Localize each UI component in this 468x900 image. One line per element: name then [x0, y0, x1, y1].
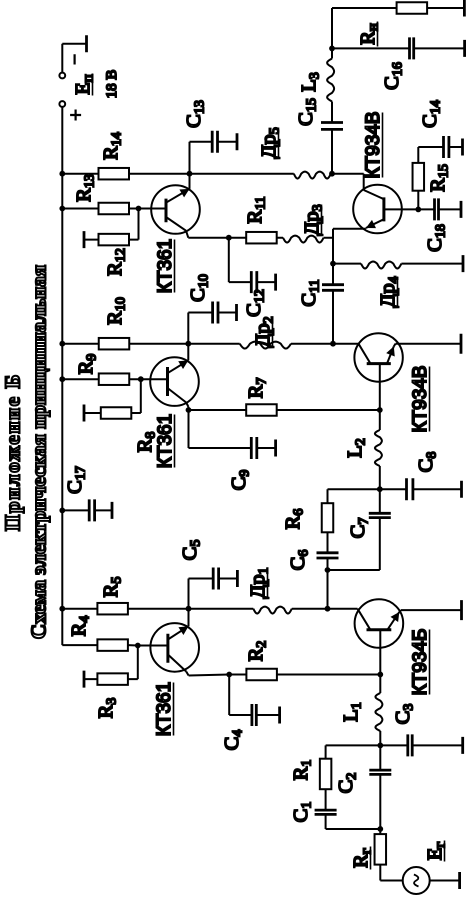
resistor R14: [99, 168, 130, 180]
node C6 tap on feed line: [325, 606, 331, 612]
resistor R8: [83, 405, 86, 422]
svg-text:R12: R12: [104, 248, 129, 276]
generator Eg AC source: [403, 867, 430, 894]
wire C13 branch: [189, 142, 191, 174]
wire C3 drop: [380, 744, 408, 746]
wire C7 branch down: [328, 569, 380, 571]
ground bar below C18: [460, 201, 463, 218]
wire VT6 base lead down: [384, 208, 418, 210]
node N1: [377, 486, 383, 492]
ground bar below Rn: [463, 0, 466, 17]
transistor VT2 KT934B: [355, 599, 404, 648]
wire C9 branch: [188, 410, 190, 448]
node Dr4 / C11 / emitter VT6: [330, 261, 336, 267]
svg-text:C16: C16: [381, 62, 406, 90]
capacitor C7: [379, 518, 381, 570]
transistor VT5 KT361: [151, 185, 200, 234]
svg-text:R6: R6: [282, 509, 307, 530]
svg-text:L3: L3: [298, 72, 323, 92]
node A input: [377, 743, 383, 749]
resistor R10: [99, 338, 130, 350]
svg-text:R11: R11: [244, 196, 269, 223]
wire VT2 emitter to ground: [399, 610, 401, 612]
ground bar below C9: [274, 440, 277, 457]
wire C10 to ground: [218, 312, 237, 314]
node C16 tap: [329, 46, 335, 52]
wire C16 to ground: [414, 47, 465, 49]
svg-text:L1: L1: [340, 702, 365, 722]
resistor R11: [229, 237, 246, 239]
capacitor C10: [211, 302, 214, 324]
inductor Dr2 choke: [188, 343, 239, 345]
svg-text:R5: R5: [100, 577, 125, 598]
node emitter VT1 / R5 / C5: [186, 606, 192, 612]
svg-text:C12: C12: [243, 289, 268, 317]
capacitor C15: [321, 128, 343, 131]
ground bar below C5: [236, 570, 239, 587]
svg-text:C13: C13: [183, 100, 208, 128]
node base of VT5: [136, 206, 142, 212]
ground bar below C8: [460, 481, 463, 498]
svg-text:R13: R13: [73, 174, 98, 202]
capacitor C13: [211, 131, 214, 153]
wire feed to VT4 collector: [333, 343, 359, 345]
svg-text:C5: C5: [179, 540, 204, 561]
transistor VT1 KT361: [150, 623, 199, 672]
svg-text:R9: R9: [75, 354, 100, 375]
node emitter VT3 / R10 / C10: [185, 341, 191, 347]
capacitor C17 rail decoupling: [62, 509, 89, 511]
svg-text:C2: C2: [335, 773, 360, 794]
wire base lead VT3: [141, 378, 168, 380]
wire R15 corner to C14: [418, 146, 443, 148]
terminal - of power connector: [59, 73, 65, 79]
svg-text:Схема электрическая принципиал: Схема электрическая принципиальная: [27, 265, 51, 639]
wire VT1 collector to R2 node: [186, 672, 188, 676]
svg-text:R2: R2: [245, 641, 270, 662]
wire C3 to ground: [412, 744, 463, 746]
wire Eg to Rg: [380, 880, 402, 882]
wire junction to C4: [228, 675, 230, 716]
wire VT5 emitter to node: [189, 174, 191, 189]
node emitter VT5 / R14 / C13: [187, 171, 193, 177]
node base network VT6: [415, 207, 421, 213]
wire base lead VT1: [138, 645, 168, 647]
wire L3 to C16 node: [331, 48, 333, 58]
inductor Dr3 choke: [283, 236, 324, 243]
svg-text:R7: R7: [245, 378, 270, 399]
svg-text:C18: C18: [424, 224, 449, 252]
svg-text:R4: R4: [68, 616, 93, 637]
svg-text:C3: C3: [392, 704, 417, 725]
wire base lead VT4: [379, 364, 381, 410]
wire feed to VT2 collector: [328, 608, 358, 610]
terminal + of power connector: [59, 101, 65, 107]
resistor R15: [413, 163, 425, 191]
node rail junction: [59, 606, 65, 612]
capacitor C11: [332, 290, 334, 343]
ground bar below C14: [461, 139, 464, 156]
svg-text:C1: C1: [290, 802, 315, 823]
svg-text:C11: C11: [298, 279, 323, 306]
node B input: [377, 826, 383, 832]
ground bar below C17: [111, 502, 114, 519]
svg-text:18 В: 18 В: [104, 70, 120, 99]
svg-text:R1: R1: [290, 760, 315, 781]
node base of VT4 KT934V: [377, 407, 383, 413]
ground bar below C16: [463, 40, 466, 57]
svg-text:R15: R15: [427, 164, 452, 192]
resistor R4: [62, 644, 97, 646]
ground bar below C12: [274, 274, 277, 291]
node collector VT5 junction R11: [226, 235, 232, 241]
wire base lead of VT2: [379, 630, 381, 675]
wire C1 to R1: [325, 789, 327, 810]
node R2 top / C4 junction: [226, 672, 232, 678]
wire VT3 collector: [186, 403, 188, 408]
ground bar below C13: [236, 133, 239, 150]
svg-text:КТ361: КТ361: [155, 414, 176, 468]
wire C5 to ground: [219, 578, 238, 580]
node base of VT2 KT934B: [377, 672, 383, 678]
inductor Dr4 choke: [333, 263, 361, 265]
wire VT3 emitter to node: [187, 344, 189, 361]
resistor Rn load: [397, 2, 428, 14]
svg-text:R10: R10: [104, 297, 129, 325]
node base of VT1: [135, 643, 141, 649]
wire C10 branch: [187, 313, 189, 344]
svg-text:C17: C17: [64, 466, 89, 494]
svg-text:C6: C6: [287, 550, 312, 571]
wire C12 branch: [228, 238, 230, 282]
capacitor C3: [406, 734, 409, 756]
inductor L2: [379, 466, 381, 489]
wire Eg to ground: [430, 880, 460, 882]
node C11 tap on feed line: [330, 341, 336, 347]
ground bar below C3: [461, 737, 464, 754]
wire C13 to ground: [218, 141, 238, 143]
svg-text:C7: C7: [347, 518, 372, 539]
svg-text:C15: C15: [295, 98, 320, 126]
node N2: [325, 567, 331, 573]
node base of VT3: [138, 376, 144, 382]
capacitor C12: [250, 271, 253, 293]
ground bar VT2 emitter: [460, 600, 463, 620]
inductor L1: [379, 731, 381, 745]
capacitor C2: [379, 774, 381, 829]
capacitor C8 drop: [380, 488, 407, 490]
resistor R2: [277, 674, 380, 676]
resistor R9: [62, 378, 98, 380]
svg-text:КТ934Б: КТ934Б: [410, 629, 431, 696]
wire VT6 collector to feed line: [363, 174, 365, 190]
transistor VT4 KT934V: [354, 333, 402, 381]
resistor Rg: [375, 834, 387, 865]
wire VT4 emitter to ground: [394, 344, 396, 347]
svg-text:КТ361: КТ361: [154, 682, 175, 736]
wire output to Rn: [331, 8, 333, 48]
node rail junction: [59, 341, 65, 347]
node collector VT3 / R7 / C9: [186, 407, 192, 413]
inductor L3: [327, 59, 334, 102]
wire C9 to ground: [257, 447, 276, 449]
capacitor C18 drop: [418, 208, 434, 210]
svg-text:C10: C10: [187, 274, 212, 302]
inductor Dr5 choke: [190, 173, 294, 175]
resistor R6: [322, 503, 334, 532]
svg-text:C8: C8: [415, 452, 440, 473]
wire R1 to corner above node A: [325, 745, 327, 758]
wire C4 drop: [229, 714, 252, 716]
wire C14 to ground: [449, 146, 463, 148]
svg-text:R14: R14: [100, 132, 125, 160]
wire node B up to C1-R1 branch: [326, 828, 381, 830]
resistor R3: [83, 671, 86, 688]
wire C15 to L3: [331, 102, 333, 123]
wire C1 branch horizontal: [325, 814, 327, 829]
svg-text:КТ361: КТ361: [155, 239, 176, 293]
ground bar of - terminal: [85, 35, 88, 52]
ground bar below C10: [235, 304, 238, 321]
wire N2 branch: [327, 570, 329, 609]
inductor Dr1 choke: [189, 608, 254, 610]
wire output row from feed tap: [331, 129, 333, 173]
ground bar below C4: [278, 707, 281, 724]
capacitor C16: [408, 37, 411, 59]
transistor VT6 KT934V output: [353, 185, 402, 234]
wire emitter run of VT6: [332, 229, 334, 264]
wire C4 to ground: [256, 714, 279, 716]
svg-text:Приложение Б: Приложение Б: [1, 373, 25, 531]
node rail junction: [59, 171, 65, 177]
svg-text:C9: C9: [228, 470, 253, 491]
capacitor C5: [212, 568, 215, 590]
capacitor C6: [327, 558, 329, 570]
svg-text:R3: R3: [95, 698, 120, 719]
wire C5 branch: [188, 579, 190, 609]
capacitor C1: [315, 813, 337, 816]
capacitor C4: [250, 704, 253, 726]
wire C16 drop: [332, 47, 410, 49]
ground bar below Dr4: [462, 255, 465, 272]
wire - terminal to ground: [61, 44, 63, 73]
resistor R5: [97, 603, 128, 615]
label + sign: [74, 110, 76, 121]
node rail junction: [59, 376, 65, 382]
capacitor C9: [250, 437, 253, 459]
capacitor C14: [442, 136, 445, 158]
ground bar VT4 emitter: [460, 334, 463, 354]
svg-text:КТ934В: КТ934В: [363, 111, 384, 178]
node C15 tap on feed line: [329, 171, 335, 177]
wire C12 to ground: [257, 281, 276, 283]
ground bar below Eg: [458, 872, 461, 889]
wire top +Ep supply rail: [61, 107, 63, 645]
node rail junction: [59, 508, 65, 514]
wire VT5 collector: [186, 231, 188, 238]
wire VT1 emitter to node: [188, 609, 190, 627]
wire base lead VT5: [139, 208, 167, 210]
label - sign: [73, 54, 75, 64]
resistor R12: [83, 231, 86, 248]
resistor R13: [62, 208, 98, 210]
transistor VT3 KT361: [150, 357, 199, 406]
svg-text:L2: L2: [344, 438, 369, 458]
node rail junction: [59, 206, 65, 212]
svg-text:C14: C14: [419, 100, 444, 128]
svg-text:C4: C4: [221, 730, 246, 751]
resistor R1: [320, 759, 332, 790]
svg-text:КТ934В: КТ934В: [410, 365, 431, 432]
wire base node to R15: [417, 191, 419, 210]
resistor R7: [189, 409, 247, 411]
